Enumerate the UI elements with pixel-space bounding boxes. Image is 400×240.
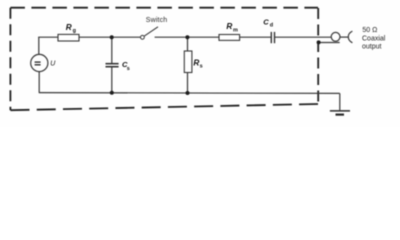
svg-text:s: s — [127, 66, 130, 72]
svg-text:R: R — [66, 23, 72, 32]
svg-text:d: d — [270, 23, 273, 29]
svg-text:50 Ω: 50 Ω — [362, 27, 377, 34]
svg-text:R: R — [193, 59, 199, 68]
svg-text:U: U — [50, 61, 56, 68]
svg-text:Switch: Switch — [146, 17, 168, 24]
svg-text:s: s — [200, 63, 203, 69]
svg-text:output: output — [362, 43, 382, 50]
svg-text:Coaxial: Coaxial — [362, 36, 386, 43]
svg-text:g: g — [73, 28, 76, 34]
svg-text:m: m — [233, 27, 238, 33]
svg-text:R: R — [226, 22, 232, 31]
svg-text:C: C — [263, 18, 269, 27]
